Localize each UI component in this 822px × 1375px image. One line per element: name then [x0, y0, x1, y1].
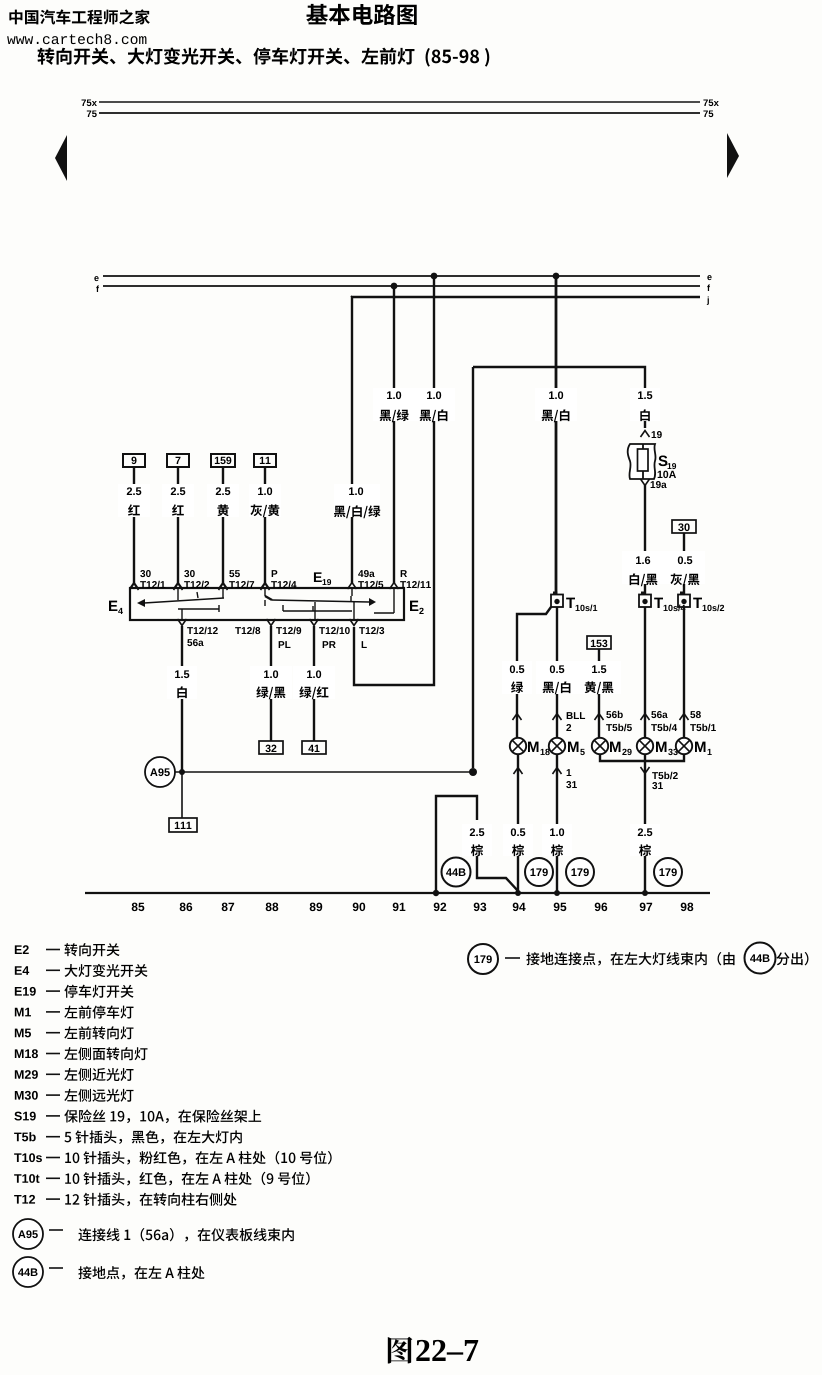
- page continuation arrow left: [55, 135, 67, 181]
- wire 1.5 白 branch to fuse S19: [473, 367, 662, 438]
- ground jumper 2.5 棕 from 44B: [433, 796, 518, 896]
- website url www.cartech8.com: [7, 33, 146, 44]
- lamp M33 左侧远光灯: [637, 738, 678, 755]
- legend E4 大灯变光开关: [15, 964, 148, 977]
- pin 30 T12/2: [174, 570, 210, 589]
- wire 0.5 黑/白 from T10s/1 to lamp M5: [536, 607, 585, 738]
- lamp M18 左侧面转向灯: [510, 738, 550, 755]
- bus wire e: [94, 275, 711, 281]
- legend A95 连接线: [13, 1219, 294, 1249]
- terminal box 11: [254, 454, 276, 467]
- lamp M1 左前停车灯: [676, 738, 712, 755]
- track numbers 85-98: [132, 903, 694, 912]
- switch E2 label: [410, 601, 424, 614]
- connection A95 56a: [145, 757, 175, 787]
- bus wire j: [351, 296, 709, 304]
- legend T10s 10 针插头，粉红色，在左 A 柱处（10 号位）: [14, 1151, 332, 1165]
- legend M29 左侧近光灯: [15, 1068, 134, 1081]
- terminal box 30: [672, 520, 696, 533]
- pin 55 T12/7: [219, 570, 255, 589]
- legend T10t 10 针插头，红色，在左 A 柱处（9 号位）: [14, 1172, 310, 1186]
- wire 2.5 红 from terminal 9 to switch: [118, 467, 150, 590]
- legend E19 停车灯开关: [15, 985, 134, 998]
- lamp M29 左侧近光灯: [592, 738, 632, 755]
- pin T12/3 L: [350, 619, 385, 648]
- subtitle 转向开关、大灯变光开关、停车灯开关、左前灯 (85-98): [38, 48, 490, 67]
- terminal box 9: [123, 454, 145, 467]
- terminal box 32: [259, 741, 283, 754]
- legend E2 转向开关: [15, 943, 120, 956]
- wire lamps to ground bus 2.5 棕 via T5b/2: [630, 754, 678, 896]
- wire 1.0 黑/白 from bus e to T12/3: [354, 273, 455, 685]
- legend M30 左侧远光灯: [15, 1089, 134, 1102]
- terminal box 159: [211, 454, 235, 467]
- legend M5 左前转向灯: [15, 1026, 134, 1039]
- switch E2 E19 contacts 转向开关 停车灯开关: [265, 589, 394, 620]
- wire lamp M5 to ground bus 1.0 棕: [542, 754, 577, 896]
- power rail 75: [87, 110, 714, 117]
- ground connection 179 at track 95: [566, 858, 594, 886]
- terminal box 41: [302, 741, 326, 754]
- terminal box 7: [167, 454, 189, 467]
- legend T12 12 针插头，在转向柱右侧处: [14, 1193, 237, 1207]
- connector T10s/1: [551, 592, 597, 612]
- wire joining lamps M29 M33 M1: [600, 754, 684, 761]
- legend T5b 5 针插头，黑色，在左大灯内: [14, 1130, 242, 1144]
- wire 1.0 黑/绿 from bus f to T12/11: [373, 283, 415, 584]
- switch E4 label: [109, 601, 123, 614]
- wire 1.0 绿/黑 from T12/9 to terminal 32: [250, 626, 292, 741]
- ground bus bar: [85, 892, 710, 894]
- pin T12/12 56a: [178, 619, 218, 646]
- switch E4 contacts 大灯变光开关: [137, 589, 224, 620]
- pin T12/9 PL: [267, 619, 302, 648]
- terminal box 153: [587, 636, 611, 649]
- legend 44B 接地点: [13, 1257, 205, 1287]
- wire from A95 to terminal 111: [181, 772, 183, 818]
- legend 179 接地连接点: [468, 943, 808, 975]
- power rail 75x: [82, 99, 719, 106]
- wire 1.0 绿/红 from T12/10 to terminal 41: [293, 626, 335, 741]
- wire 1.5 黄/黑 from terminal 153 to lamp M29: [578, 649, 632, 738]
- wire 0.5 灰/黑 from T10s/2 to lamp M1: [680, 607, 716, 738]
- figure caption 图22-7: [388, 1337, 478, 1364]
- ground connection 179 at track 97: [654, 858, 682, 886]
- page continuation arrow right: [727, 133, 739, 178]
- wire branch to connection A95: [472, 367, 474, 768]
- terminal box 111: [169, 818, 197, 832]
- pin T12/8: [235, 627, 260, 634]
- wire 1.6 白/黑 from T10s/4 to lamp M33: [641, 607, 678, 738]
- ground point 44B: [442, 858, 471, 887]
- wire connection A95 junction: [175, 768, 477, 776]
- switch unit box containing E4 E19 E2: [130, 588, 404, 620]
- legend S19 保险丝 19，10A，在保险丝架上: [14, 1109, 261, 1123]
- wire 0.5 绿 from T10s/1 to lamp M18: [502, 607, 551, 738]
- wire 1.0 黑/白 from bus e to T10s/1: [535, 273, 577, 594]
- wire 2.5 红 from terminal 7 to switch: [162, 467, 194, 590]
- title header 中国汽车工程师之家: [9, 9, 149, 24]
- pin R T12/11: [390, 570, 431, 589]
- switch E19 label: [314, 572, 331, 585]
- ground connection 179 at track 94: [525, 858, 553, 886]
- bus wire f: [96, 284, 710, 292]
- connector T10s/2: [678, 592, 724, 612]
- wire 1.0 黑/白/绿 from bus j to T12/5: [334, 296, 381, 584]
- legend M1 左前停车灯: [15, 1005, 134, 1018]
- pin P T12/4: [261, 570, 297, 589]
- pin 49a T12/5: [348, 570, 384, 589]
- pin 30 T12/1: [130, 570, 166, 589]
- wire 1.6 白/黑 from fuse 19a to T10s/4: [622, 485, 666, 594]
- legend M18 左侧面转向灯: [15, 1047, 148, 1060]
- wire 0.5 灰/黑 from terminal 30 to T10s/2: [663, 533, 705, 594]
- wire 1.5 白 from T12/12 to connection A95: [167, 626, 197, 770]
- pin T12/10 PR: [310, 619, 350, 648]
- wire 1.0 灰/黄 from terminal 11 to switch: [249, 467, 281, 590]
- connector T10s/4: [639, 592, 685, 612]
- document title 基本电路图: [306, 4, 416, 25]
- wire 2.5 黄 from terminal 159 to switch: [207, 467, 239, 590]
- wire lamp M18 to ground bus 0.5 棕: [503, 754, 533, 896]
- lamp M5 左前转向灯: [549, 738, 585, 755]
- fuse S19 10A: [628, 444, 676, 488]
